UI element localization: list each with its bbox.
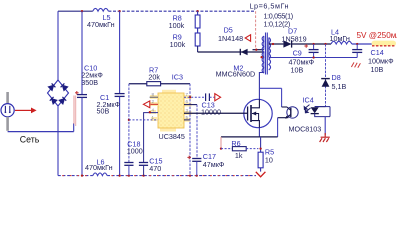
wire drain branch bbox=[259, 87, 281, 89]
wire emitter drop bbox=[277, 118, 279, 137]
node dot rail-C1 bbox=[118, 10, 120, 12]
capacitor C18 bbox=[128, 84, 130, 163]
capacitor C13 bbox=[184, 96, 205, 98]
transformer T1 bbox=[262, 33, 270, 75]
svg-text:350В: 350В bbox=[81, 78, 98, 87]
svg-text:10В: 10В bbox=[291, 66, 304, 75]
wire LED cathode down bbox=[324, 117, 326, 135]
wire clamp to primary bbox=[198, 51, 264, 53]
svg-text:Сеть: Сеть bbox=[20, 135, 40, 145]
inductor L6 bbox=[93, 173, 107, 176]
diode D7 bbox=[283, 40, 291, 47]
svg-text:20k: 20k bbox=[148, 72, 160, 81]
resistor R8 bbox=[197, 11, 199, 15]
capacitor C9 bbox=[313, 44, 315, 49]
svg-text:C9: C9 bbox=[293, 49, 302, 58]
svg-text:MOC8103: MOC8103 bbox=[289, 124, 322, 133]
svg-text:47мкФ: 47мкФ bbox=[203, 160, 225, 169]
svg-text:100k: 100k bbox=[170, 40, 186, 49]
inductor L5 bbox=[93, 8, 109, 11]
svg-text:IC3: IC3 bbox=[172, 72, 183, 81]
svg-text:100k: 100k bbox=[169, 21, 185, 30]
optocoupler IC4 bbox=[282, 106, 287, 108]
capacitor C10 bbox=[81, 11, 83, 94]
wire source down bbox=[258, 128, 260, 137]
wire AC riser blue bbox=[73, 123, 75, 132]
wire top rail right dashed bbox=[108, 10, 255, 12]
svg-text:470мкГн: 470мкГн bbox=[87, 20, 115, 29]
LED of IC4 bbox=[315, 106, 326, 108]
svg-text:470: 470 bbox=[149, 164, 161, 173]
wire top rail left solid bbox=[58, 10, 93, 12]
wire rail to primary top (pink dashed drop) bbox=[255, 11, 257, 50]
capacitor C17 bbox=[184, 104, 197, 106]
svg-text:1N4148: 1N4148 bbox=[218, 34, 243, 43]
resistor R7 bbox=[129, 83, 147, 85]
node dot primary top bbox=[255, 49, 257, 51]
svg-text:1000: 1000 bbox=[127, 146, 143, 155]
capacitor C14 bbox=[356, 44, 358, 49]
svg-text:1:0,12(2): 1:0,12(2) bbox=[264, 19, 291, 28]
node dot primary mid bbox=[260, 56, 262, 58]
wire bottom-left horizontal bbox=[8, 131, 74, 133]
svg-text:1k: 1k bbox=[235, 151, 243, 160]
svg-text:10мГн: 10мГн bbox=[330, 34, 350, 43]
bridge rectifier bbox=[48, 80, 69, 106]
wire output rail bbox=[292, 43, 331, 45]
svg-text:Lp=6,5мГн: Lp=6,5мГн bbox=[250, 2, 290, 11]
svg-text:50В: 50В bbox=[97, 106, 110, 115]
diode D5 bbox=[239, 49, 241, 55]
node dots bottom rail bbox=[81, 174, 83, 176]
wire primary bottom to drain bbox=[259, 73, 263, 100]
ground chassis red bbox=[320, 133, 330, 142]
svg-text:470мкГн: 470мкГн bbox=[85, 163, 113, 172]
wire sense drop pink bbox=[220, 137, 222, 149]
capacitor C15 bbox=[139, 162, 148, 164]
wire source node horizontal bbox=[221, 136, 278, 138]
capacitor C1 bbox=[119, 11, 121, 93]
pin left 3 wire to C15 bbox=[144, 113, 158, 163]
wire bridge top vertical bbox=[57, 11, 59, 80]
wire bridge bottom vertical bbox=[57, 106, 59, 176]
node dot rail-R8 bbox=[196, 10, 198, 12]
arrow ground chevron red bbox=[256, 172, 266, 177]
svg-text:10В: 10В bbox=[371, 65, 384, 74]
resistor R6 bbox=[221, 148, 232, 150]
svg-text:MMC6N60D: MMC6N60D bbox=[216, 69, 256, 78]
svg-text:IC4: IC4 bbox=[303, 96, 314, 105]
resistor R9 bbox=[197, 28, 199, 33]
svg-text:UC3845: UC3845 bbox=[159, 132, 185, 141]
svg-text:10: 10 bbox=[265, 155, 273, 164]
wire secondary top lead bbox=[269, 43, 284, 45]
svg-text:R6: R6 bbox=[231, 139, 240, 148]
node dot rail-C10 bbox=[81, 10, 83, 12]
plug X1 mains connector bbox=[6, 92, 9, 103]
wire bottom rail bbox=[58, 175, 93, 177]
arrow mains red bbox=[15, 109, 31, 111]
wire gate bbox=[184, 112, 248, 114]
output highlight yellow bbox=[372, 41, 397, 47]
MOSFET M2 bbox=[244, 99, 272, 127]
pin stub left 1 bbox=[150, 96, 158, 98]
svg-text:5,1В: 5,1В bbox=[332, 82, 347, 91]
IC3 pin speckles bbox=[150, 90, 192, 132]
zener D8 bbox=[325, 44, 327, 107]
pin stub left 2 with red arrow bbox=[151, 103, 158, 105]
wire output lower rail bbox=[269, 57, 357, 59]
pin left 4 wire to C18 bbox=[129, 119, 158, 121]
wire IC3 VCC vertical x190 bbox=[189, 84, 191, 176]
marker red triangle D5 bbox=[245, 35, 250, 42]
svg-text:1N5819: 1N5819 bbox=[282, 34, 307, 43]
wire AC riser pink pair bbox=[73, 96, 75, 125]
svg-text:5V @250мА: 5V @250мА bbox=[357, 31, 397, 40]
resistor R5 bbox=[260, 137, 262, 152]
svg-text:10000: 10000 bbox=[201, 107, 221, 116]
inductor L4 bbox=[331, 41, 352, 44]
IC3 body UC3845 bbox=[158, 93, 184, 128]
